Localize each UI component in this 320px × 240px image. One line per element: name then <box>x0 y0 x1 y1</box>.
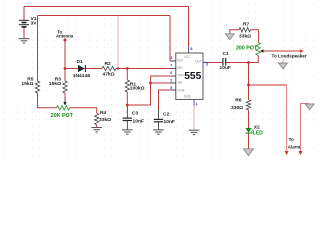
wire C3 bottom to ground <box>126 121 128 130</box>
svg-text:20K POT: 20K POT <box>51 113 74 119</box>
svg-text:DIS: DIS <box>177 66 182 70</box>
node antenna/D1 junction <box>64 67 67 70</box>
resistor R2 <box>102 66 116 70</box>
svg-text:LED: LED <box>253 130 263 136</box>
wire alarm branch right <box>301 104 309 152</box>
svg-text:RST: RST <box>177 58 183 62</box>
node R2 right junction <box>117 67 119 69</box>
connector arrow alarm right top <box>305 104 314 110</box>
wire node to D1 anode <box>65 68 78 70</box>
svg-text:Alarm: Alarm <box>288 145 301 150</box>
wire battery bottom to ground <box>23 27 25 38</box>
wire pot right to R4 <box>70 108 97 114</box>
svg-text:C1: C1 <box>223 51 230 57</box>
svg-text:D1: D1 <box>77 59 84 65</box>
resistor R3 <box>63 81 67 93</box>
LED X2 <box>245 128 251 133</box>
svg-text:GND: GND <box>184 94 192 98</box>
capacitor C2 <box>154 119 163 121</box>
svg-text:330Ω: 330Ω <box>231 105 243 111</box>
ground pin 1 <box>189 130 200 134</box>
svg-text:OUT: OUT <box>195 59 202 63</box>
potentiometer 200 POT <box>256 43 260 56</box>
resistor R4 <box>95 113 99 124</box>
svg-text:47kΩ: 47kΩ <box>103 71 115 77</box>
wire rail to R2 (faint) <box>117 16 119 69</box>
wire pin 2 TRI branch <box>151 82 171 84</box>
svg-text:10uF: 10uF <box>220 65 231 71</box>
node pin2 junction <box>149 82 152 85</box>
svg-text:15kΩ: 15kΩ <box>49 81 61 87</box>
wire D1 cathode to R2 <box>86 68 102 70</box>
wire C1 to output node and pot bottom <box>226 55 258 62</box>
connector arrow loudspeaker ground <box>279 63 288 69</box>
wire C3 top lead <box>126 107 128 118</box>
ground C2 <box>153 130 164 134</box>
wire R4 bottom to ground <box>96 125 98 128</box>
battery V1 <box>19 20 29 27</box>
wire pin 1 GND to ground (faint) <box>193 105 195 130</box>
ground R4 <box>91 128 102 132</box>
wire R5 branch top <box>37 16 39 82</box>
svg-text:100kΩ: 100kΩ <box>130 86 145 92</box>
svg-text:Antenna: Antenna <box>56 33 74 38</box>
svg-text:C2: C2 <box>163 112 170 118</box>
svg-text:1N4148: 1N4148 <box>73 73 90 79</box>
node R1 top junction <box>126 67 129 70</box>
connector arrow R7 left <box>225 34 234 40</box>
svg-text:3V: 3V <box>31 20 38 26</box>
wire top supply rail <box>24 6 189 8</box>
op-amp U1 555 timer IC <box>170 46 209 105</box>
resistor R5 <box>35 81 39 93</box>
resistor R7 <box>239 28 251 32</box>
potentiometer 20K POT <box>57 106 70 110</box>
wire R1 top <box>126 69 128 81</box>
svg-text:TRI: TRI <box>177 81 182 85</box>
ground battery <box>19 39 30 43</box>
svg-text:10nF: 10nF <box>164 119 175 125</box>
svg-text:R6: R6 <box>235 98 242 104</box>
svg-text:R4: R4 <box>100 110 107 116</box>
capacitor C3 <box>123 118 132 120</box>
wire R1 bottom to C3 <box>126 92 128 108</box>
wire C2 bottom to ground <box>158 122 160 130</box>
wire VCC drop to pin 8 <box>188 7 190 47</box>
node output junction <box>247 61 250 64</box>
svg-text:555: 555 <box>184 71 201 82</box>
node To Alarm <box>285 151 289 155</box>
grid dots <box>0 0 315 160</box>
wire R2 to pin 7 DIS <box>116 68 170 70</box>
wire inner top rail <box>38 15 171 17</box>
svg-text:THR: THR <box>177 73 184 77</box>
capacitor C1 <box>223 58 226 66</box>
resistor R6 <box>246 100 250 110</box>
svg-text:To: To <box>289 137 294 142</box>
wire timing node to pin 6 THR <box>127 76 170 105</box>
wire R3 bottom to pot wiper <box>64 93 66 100</box>
diode D1 1N4148 <box>78 65 85 72</box>
wire alarm left vertical <box>286 85 288 151</box>
svg-text:15kΩ: 15kΩ <box>21 81 33 87</box>
wire pin 5 CON to C2 <box>159 90 171 110</box>
svg-text:C3: C3 <box>132 110 139 116</box>
wire loudspeaker ground stub <box>282 59 284 63</box>
svg-text:VCC: VCC <box>184 55 191 59</box>
svg-text:10nF: 10nF <box>133 119 144 125</box>
svg-text:33kΩ: 33kΩ <box>239 33 251 39</box>
wire LED cathode down <box>248 133 250 148</box>
wire R5 bottom to pot left <box>38 93 57 108</box>
svg-text:200 POT: 200 POT <box>236 45 258 51</box>
wire pot wiper to loudspeaker <box>264 50 300 52</box>
resistor R1 <box>125 80 129 92</box>
node timing junction <box>126 104 129 107</box>
svg-text:33kΩ: 33kΩ <box>99 117 111 123</box>
svg-text:CON: CON <box>177 88 185 92</box>
wire R7 left to connector <box>230 30 239 34</box>
svg-text:R7: R7 <box>243 21 250 27</box>
wire alarm branch left <box>249 84 287 86</box>
node To Loudspeaker <box>300 49 304 53</box>
wire battery top <box>23 7 25 21</box>
wire output node down through R6 branch <box>248 63 250 100</box>
wire pin 4 RST drop <box>169 16 171 62</box>
wire R6 bottom to LED <box>248 110 250 128</box>
wire C2 top lead <box>158 109 160 119</box>
ground C3 <box>122 130 133 134</box>
wire R7 right to pot top <box>251 30 259 43</box>
svg-text:To Loudspeaker: To Loudspeaker <box>272 54 307 59</box>
node alarm junction <box>247 84 250 87</box>
svg-text:R2: R2 <box>105 61 112 67</box>
connector arrow LED bottom <box>244 149 254 156</box>
wire pin 3 OUT to C1 <box>209 62 223 64</box>
wire antenna stub down to R3 <box>64 40 66 81</box>
